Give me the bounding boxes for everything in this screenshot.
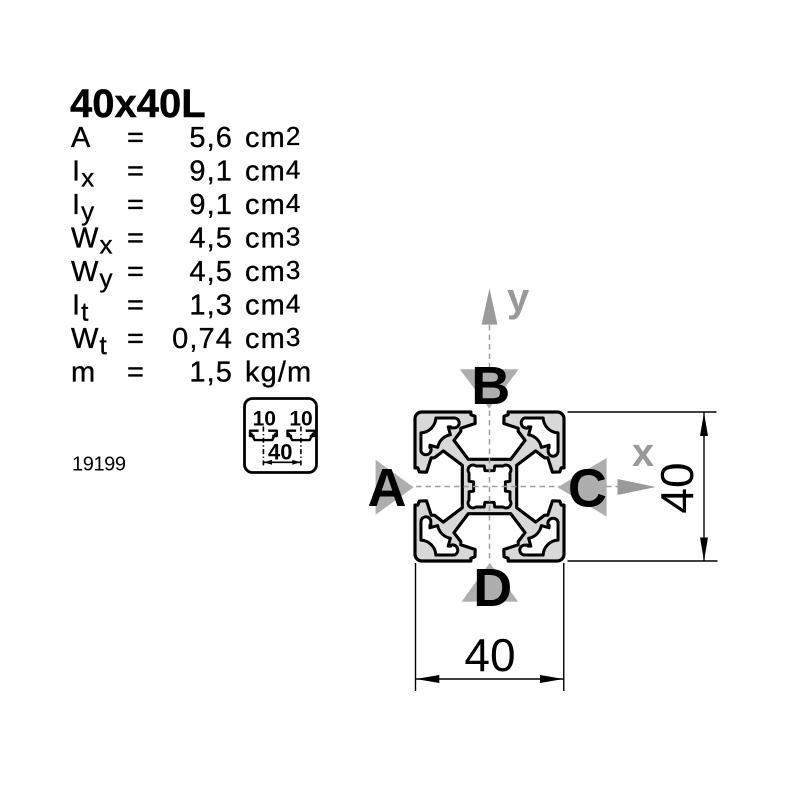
- y axis arrow: [482, 289, 498, 325]
- svg-text:C: C: [568, 459, 607, 519]
- arrow triangle C: [558, 458, 607, 517]
- svg-text:4,5: 4,5: [189, 256, 233, 288]
- svg-text:cm4: cm4: [245, 289, 301, 322]
- svg-text:=: =: [127, 223, 145, 255]
- svg-text:=: =: [127, 122, 145, 154]
- arrow triangle A: [376, 460, 414, 515]
- icon centerlines: [262, 427, 264, 467]
- svg-text:4,5: 4,5: [189, 223, 233, 255]
- svg-text:1,5: 1,5: [189, 357, 233, 389]
- svg-text:10: 10: [253, 408, 276, 431]
- svg-text:cm4: cm4: [245, 188, 301, 221]
- corner cavity top-right: [521, 418, 558, 456]
- svg-text:0,74: 0,74: [172, 323, 233, 355]
- right dimension: extension lines: [568, 411, 717, 413]
- svg-text:9,1: 9,1: [189, 156, 233, 188]
- svg-text:=: =: [127, 256, 145, 288]
- slot pitch icon box: [245, 399, 317, 473]
- svg-text:1,3: 1,3: [189, 290, 233, 322]
- arrow triangle B: [460, 369, 519, 408]
- svg-text:5,6: 5,6: [189, 122, 233, 154]
- svg-text:cm2: cm2: [245, 121, 301, 154]
- svg-text:40x40L: 40x40L: [70, 82, 206, 126]
- svg-text:D: D: [473, 558, 512, 618]
- svg-text:cm4: cm4: [245, 155, 301, 188]
- svg-text:kg/m: kg/m: [245, 357, 312, 389]
- arrow triangle D: [462, 563, 518, 602]
- profile metal body: [415, 412, 564, 561]
- svg-text:9,1: 9,1: [189, 189, 233, 221]
- svg-text:40: 40: [651, 462, 703, 513]
- svg-text:y: y: [507, 276, 530, 320]
- svg-text:40: 40: [464, 629, 515, 681]
- bottom dimension line: [416, 678, 564, 680]
- svg-text:cm3: cm3: [245, 322, 301, 355]
- svg-text:A: A: [71, 122, 91, 154]
- right slot glyph: [288, 431, 315, 440]
- x axis arrow: [618, 479, 656, 495]
- svg-text:=: =: [127, 156, 145, 188]
- right dimension line: [703, 413, 705, 562]
- property table: [71, 121, 312, 389]
- svg-text:B: B: [471, 356, 510, 416]
- svg-text:cm3: cm3: [245, 255, 301, 288]
- icon dim arrows: [263, 461, 301, 463]
- corner cavity bottom-right: [520, 518, 558, 555]
- svg-text:cm3: cm3: [245, 222, 301, 255]
- svg-text:=: =: [127, 290, 145, 322]
- svg-text:19199: 19199: [72, 454, 126, 476]
- svg-text:m: m: [71, 357, 96, 389]
- center bore: [468, 465, 511, 508]
- corner cavity top-left (template): [421, 418, 459, 455]
- bottom dimension: extension lines: [415, 563, 417, 691]
- corner cavity bottom-left: [421, 517, 458, 555]
- svg-text:=: =: [127, 189, 145, 221]
- svg-text:=: =: [127, 323, 145, 355]
- dashed centerlines: [378, 486, 652, 488]
- svg-text:=: =: [127, 357, 145, 389]
- svg-text:A: A: [368, 458, 407, 518]
- left slot glyph: [250, 431, 277, 440]
